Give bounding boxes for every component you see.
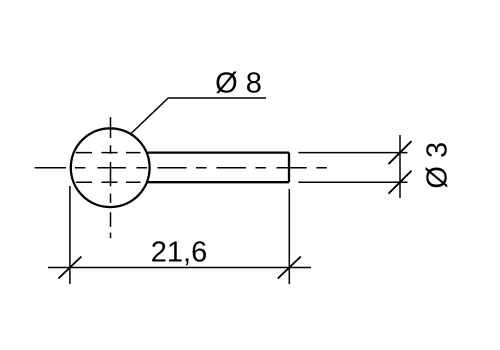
svg-text:Ø 8: Ø 8 (215, 68, 262, 100)
svg-text:21,6: 21,6 (151, 237, 207, 269)
svg-text:Ø 3: Ø 3 (422, 142, 454, 189)
